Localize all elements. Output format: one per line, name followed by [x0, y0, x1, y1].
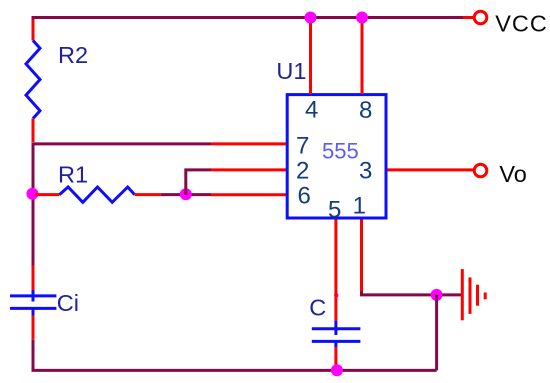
- node pin5 joint: [334, 293, 338, 297]
- capacitor Ci: [10, 290, 56, 316]
- ground symbol: [462, 269, 485, 320]
- wire pin7 stub: [211, 142, 286, 145]
- resistor R1: [60, 187, 135, 202]
- resistor R2: [26, 41, 40, 119]
- wire pin1 to ground: [362, 292, 463, 295]
- wire VCC terminal stub: [463, 16, 474, 19]
- wire pin6 stub: [211, 193, 286, 196]
- wire pin3 output lead: [388, 168, 475, 171]
- wire R2 top lead: [32, 20, 35, 41]
- wire trigger/threshold net: [161, 193, 211, 196]
- wire R1 right lead: [135, 193, 161, 196]
- wire R2 bottom lead: [32, 119, 35, 143]
- wire VCC top rail: [33, 16, 463, 19]
- svg-text:6: 6: [298, 182, 311, 209]
- wire pin7 net (discharge): [33, 142, 211, 145]
- svg-text:1: 1: [353, 193, 366, 220]
- wire left rail upper (corner to R2): [32, 16, 35, 20]
- svg-text:555: 555: [322, 138, 359, 163]
- node junction C bottom: [331, 364, 343, 376]
- wire R1 left lead: [35, 193, 60, 196]
- wire ground drop: [435, 295, 438, 371]
- wire pin2 stub: [211, 168, 286, 171]
- svg-text:VCC: VCC: [495, 11, 548, 37]
- capacitor C: [312, 321, 361, 347]
- svg-text:R1: R1: [58, 162, 88, 188]
- svg-text:3: 3: [359, 158, 372, 185]
- svg-text:U1: U1: [276, 58, 306, 84]
- node junction trigger: [180, 188, 192, 200]
- wire pin1 lead: [360, 220, 363, 293]
- svg-text:7: 7: [296, 133, 309, 160]
- node junction left: [26, 188, 38, 200]
- wire ground bottom rail: [32, 369, 437, 372]
- wire pin4 lead: [309, 18, 312, 95]
- wire pin5 lead upper: [334, 220, 337, 322]
- svg-text:4: 4: [305, 97, 318, 124]
- node junction pin8 rail: [356, 12, 368, 24]
- wire pin2 riser: [186, 170, 211, 195]
- node junction ground: [431, 289, 443, 301]
- svg-text:Vo: Vo: [499, 161, 526, 187]
- wire left rail lower: [32, 340, 35, 371]
- IC U1 555 timer body: [287, 95, 386, 218]
- terminal VCC: [474, 11, 487, 24]
- svg-text:Ci: Ci: [57, 290, 79, 316]
- wire Ci top lead red: [32, 266, 35, 291]
- svg-text:R2: R2: [58, 42, 88, 68]
- wire Ci bottom lead red: [32, 316, 35, 340]
- wire pin8 lead: [361, 18, 364, 95]
- wire C bottom lead: [334, 347, 337, 370]
- svg-text:8: 8: [359, 97, 372, 124]
- node junction pin4 rail: [305, 12, 317, 24]
- svg-text:C: C: [309, 295, 326, 321]
- svg-text:5: 5: [328, 197, 341, 224]
- svg-text:2: 2: [296, 158, 309, 185]
- terminal Vo: [474, 164, 487, 177]
- wire left rail middle: [32, 142, 35, 265]
